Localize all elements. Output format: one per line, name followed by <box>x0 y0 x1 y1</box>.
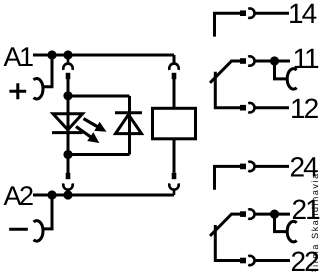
connector pin 22 <box>240 258 246 264</box>
contact 21 wire <box>231 213 241 216</box>
connector pin 21 <box>240 211 246 217</box>
wire coil to pin <box>173 139 176 173</box>
diode triangle <box>116 115 142 134</box>
node junction dot 21 <box>270 210 279 219</box>
LED triangle <box>53 114 83 130</box>
plug connector pin bottom-left <box>66 173 71 179</box>
svg-text:A1: A1 <box>4 42 34 72</box>
connector pin 14 <box>240 10 246 16</box>
LED cathode bar <box>52 131 83 134</box>
LED arrow 2 <box>76 127 99 143</box>
wire 12 to label <box>255 106 290 109</box>
contact 11 movable blade <box>210 61 232 83</box>
wire A1 rail <box>33 54 174 57</box>
node junction dot A2-a <box>47 190 56 199</box>
svg-text:14: 14 <box>288 0 317 29</box>
contact 12 stub and wire <box>215 72 240 108</box>
node junction dot loop-top <box>63 91 72 100</box>
connector pin 12 <box>240 105 246 111</box>
connector socket 14 <box>248 9 254 18</box>
plug connector pin coil-top <box>172 73 177 79</box>
contact 22 stub and wire <box>215 225 240 261</box>
wire 21 to label <box>255 213 291 216</box>
plug connector pin coil-bottom <box>172 173 177 179</box>
connector socket 22 <box>248 256 254 265</box>
connector socket 24 <box>248 162 254 171</box>
connector pin 11 <box>240 58 246 64</box>
wire pin to coil <box>173 79 176 108</box>
svg-text:12: 12 <box>290 93 319 124</box>
clamp terminal 11 <box>287 69 296 89</box>
wire loop top rail <box>68 95 130 98</box>
wire diode branch vertical <box>128 96 131 155</box>
clamp terminal 21 <box>287 221 296 242</box>
wire 14 to label <box>255 12 290 15</box>
svg-text:A2: A2 <box>4 181 34 211</box>
wire dot-to-pin bottom-left <box>67 157 70 173</box>
plug connector pin top-left <box>66 73 71 79</box>
wire 11 to label <box>255 60 291 63</box>
contact 14 wire <box>215 13 241 36</box>
plug connector socket top-left <box>63 55 72 70</box>
plus sign <box>9 83 26 99</box>
wire to minus clamp <box>42 195 52 229</box>
LED arrow 1 <box>84 119 107 132</box>
plug connector socket bottom-left <box>63 183 72 195</box>
connector socket 21 <box>248 209 254 218</box>
node junction dot A1-a <box>47 50 56 59</box>
contact 11 wire <box>231 60 241 63</box>
wire coil branch top <box>173 55 176 64</box>
connector socket 11 <box>248 56 254 65</box>
wire A2 rail <box>33 194 174 197</box>
diode cathode bar <box>115 111 142 114</box>
contact 21 movable blade <box>210 214 232 236</box>
minus sign <box>9 228 28 231</box>
clamp terminal minus <box>34 221 43 241</box>
plug connector socket coil-top <box>169 64 178 70</box>
node junction dot 11 <box>270 56 279 65</box>
wire 21 clamp hook <box>275 216 289 232</box>
contact 24 wire <box>215 166 241 189</box>
node junction dot A1-b <box>63 50 72 59</box>
clamp terminal plus <box>34 79 43 100</box>
relay coil <box>153 108 196 139</box>
plug connector socket coil-bottom <box>169 183 178 195</box>
wire loop bottom rail <box>68 153 130 156</box>
wire to plus clamp <box>42 55 52 87</box>
svg-text:Firma Skandinavia: Firma Skandinavia <box>310 172 320 272</box>
connector pin 24 <box>240 164 246 170</box>
wire LED branch vertical <box>67 79 70 150</box>
connector socket 12 <box>248 103 254 112</box>
node junction dot loop-bottom <box>63 150 72 159</box>
wire 24 to label <box>255 165 290 168</box>
wire 22 to label <box>255 259 291 262</box>
node junction dot A2-b <box>63 190 72 199</box>
wire 11 clamp hook <box>275 63 289 79</box>
